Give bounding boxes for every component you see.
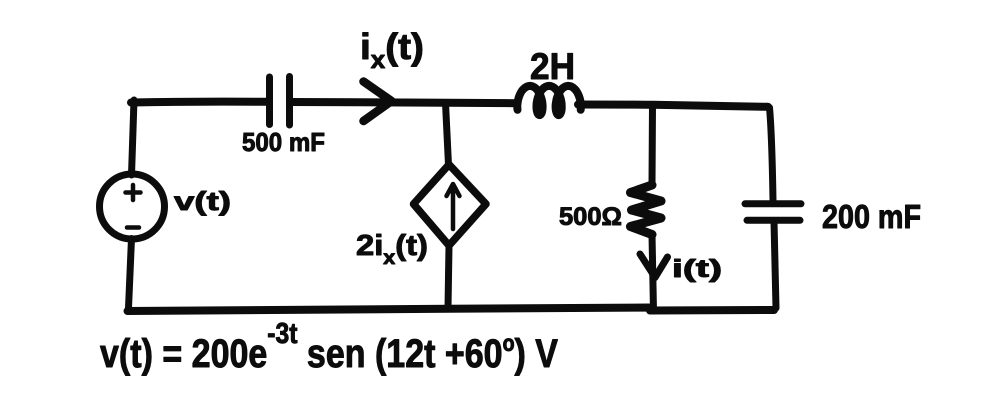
svg-text:v(t): v(t) [174, 186, 231, 216]
current arrow i(t) [640, 254, 668, 278]
svg-text:200 mF: 200 mF [822, 198, 921, 235]
voltage source minus sign [127, 225, 139, 230]
dependent current source U1 diamond [414, 165, 487, 246]
capacitor C2 top plate [745, 200, 801, 207]
svg-text:500 mF: 500 mF [242, 127, 325, 157]
svg-text:ix(t): ix(t) [360, 26, 424, 74]
wire left vertical below source [129, 239, 132, 309]
resistor R1 branch bottom wire [652, 235, 654, 312]
wire right branch vertical top [770, 108, 774, 201]
wire right branch vertical bottom [774, 221, 776, 308]
wire top right of inductor [578, 105, 768, 107]
wire top middle segment [290, 102, 516, 103]
wire top-left horizontal segment [131, 98, 268, 107]
svg-text:500Ω: 500Ω [559, 203, 622, 231]
resistor R1 branch top wire [649, 105, 657, 185]
dependent source internal arrow [447, 184, 460, 229]
capacitor C2 bottom plate [747, 217, 800, 224]
wire left vertical above source [132, 100, 135, 175]
capacitor C1 right plate [286, 77, 293, 126]
wire bottom rail [128, 308, 775, 312]
capacitor C1 left plate [266, 77, 273, 125]
svg-text:v(t) = 200e-3t sen (12t +60o): v(t) = 200e-3t sen (12t +60o) V [100, 318, 558, 376]
inductor L1 coil [517, 86, 581, 115]
svg-text:i(t): i(t) [672, 255, 722, 283]
node A junction top of dependent source branch [446, 103, 449, 165]
current arrow ix(t) head [364, 82, 392, 122]
wire below dependent source [448, 246, 449, 308]
voltage source V1 circle [100, 174, 165, 239]
voltage source plus sign [126, 185, 141, 200]
svg-text:2ix(t): 2ix(t) [356, 230, 428, 269]
resistor R1 zigzag 500 ohm [631, 185, 662, 235]
svg-text:2H: 2H [530, 46, 575, 87]
